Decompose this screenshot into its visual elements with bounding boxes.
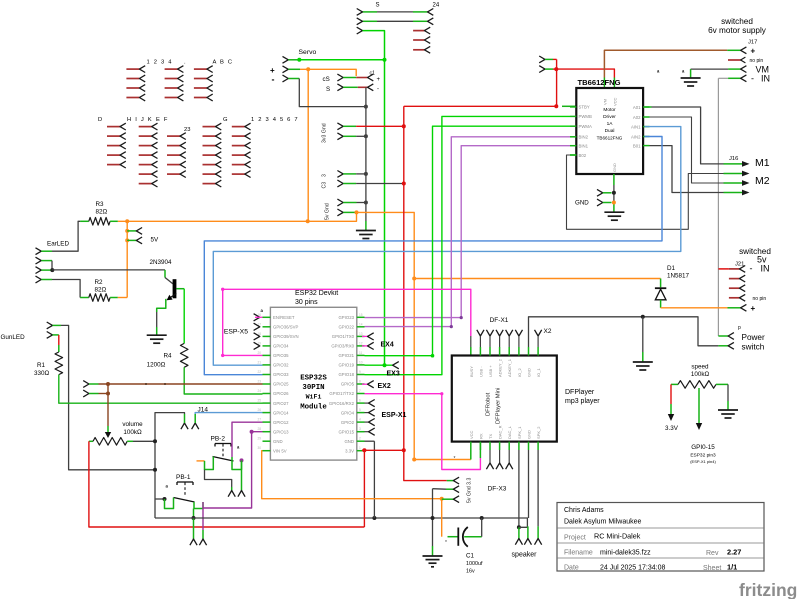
- node orange junction R3/servo branch: [306, 219, 310, 223]
- header pin Servo-2 (+): [283, 66, 289, 73]
- svg-text:GPI0-15: GPI0-15: [691, 444, 715, 451]
- wire A01 to J16-1: [645, 106, 652, 108]
- pushbutton PB-2 left contact: [205, 457, 214, 470]
- svg-text:GPIO13: GPIO13: [273, 429, 289, 434]
- svg-text:1A: 1A: [607, 121, 614, 127]
- svg-text:+: +: [377, 77, 381, 83]
- wire EarLED1 to R3 left: [52, 221, 80, 251]
- svg-text:5v Gnd: 5v Gnd: [325, 203, 331, 220]
- header pin 5vGnd33-2: [446, 488, 453, 490]
- header pin speaker: [537, 526, 539, 538]
- wire DFPlayer bottom stub: [470, 442, 472, 450]
- svg-text:24: 24: [257, 389, 261, 393]
- header pin EX2: [362, 383, 368, 385]
- wire PB-2 left to test pins: [205, 470, 232, 488]
- wire B02 to J16-2: [570, 154, 576, 156]
- svg-text:14: 14: [359, 322, 363, 326]
- svg-text:GPIO17/TX2: GPIO17/TX2: [329, 391, 354, 396]
- node green junction GPIO19/S: [383, 363, 387, 367]
- svg-text:GPIO26: GPIO26: [273, 391, 289, 396]
- svg-text:23: 23: [184, 127, 190, 133]
- svg-text:-: -: [750, 264, 753, 274]
- svg-text:3: 3: [359, 427, 361, 431]
- svg-text:DF-X1: DF-X1: [490, 317, 509, 324]
- wire base gray to 2N3904: [52, 269, 165, 271]
- header pin G-4: [203, 154, 216, 156]
- wire red volume-left to 3.3V bottom run: [89, 441, 365, 527]
- header pin A B C-4: [194, 97, 207, 99]
- wire PB-1 test pin left: [193, 518, 195, 539]
- potentiometer volume body: [89, 440, 93, 442]
- pushbutton PB-1 lever: [174, 498, 195, 503]
- wire ESP32 left stub GPIO35: [263, 354, 271, 356]
- wire ESP32 right stub GPIO1/TX0: [357, 335, 365, 337]
- potentiometer speed body: [671, 383, 678, 385]
- header pin G-2: [203, 135, 216, 137]
- header pin cluster-4: [107, 154, 120, 156]
- node junction pot right: [153, 439, 157, 443]
- wire ESP32 left stub EN/RESET: [263, 316, 271, 318]
- svg-text:IO_2: IO_2: [517, 368, 522, 377]
- svg-text:AIN1: AIN1: [631, 124, 641, 129]
- header pin J21-4: [729, 297, 740, 299]
- header pin cS: [337, 74, 343, 81]
- header pin H I J K-6: [139, 173, 152, 175]
- svg-text:volume: volume: [122, 421, 143, 428]
- wire ESP32 left stub GPIO25: [263, 383, 271, 385]
- header pin 1 2 3 4-4: [126, 97, 139, 99]
- wire ESP32 right stub GPIO3/RX0: [357, 345, 365, 347]
- header pin DF-X1: [506, 330, 513, 336]
- svg-text:82Ω: 82Ω: [95, 287, 107, 294]
- header pin 5vGnd33-3: [442, 498, 454, 500]
- header pin ESP-X5-4: [254, 342, 260, 349]
- wire pink GPIO35 to DFPlayer BUSY: [223, 289, 471, 355]
- header pin ESP-X1: [365, 431, 369, 433]
- svg-text:D: D: [98, 117, 102, 123]
- wire GunLED2 red to R1: [58, 335, 60, 345]
- svg-text:2: 2: [359, 437, 361, 441]
- svg-text:GPIO4: GPIO4: [341, 410, 355, 415]
- wire SPK_2 down: [537, 450, 539, 526]
- svg-text:S: S: [326, 86, 330, 93]
- svg-text:DFRobot: DFRobot: [486, 392, 492, 416]
- svg-text:B02: B02: [579, 153, 587, 158]
- svg-text:M2: M2: [755, 175, 770, 187]
- header pin J14-2: [192, 423, 199, 429]
- svg-text:DF-X3: DF-X3: [488, 486, 507, 493]
- svg-text:-: -: [272, 75, 275, 85]
- wire TB right pin stub: [643, 116, 649, 118]
- svg-text:2N3904: 2N3904: [150, 259, 173, 266]
- wire gnd vertical from c1- to ground: [365, 87, 367, 221]
- node red junction 3.3V b: [402, 448, 406, 452]
- wire ESP32 right stub GPIO22: [357, 326, 365, 328]
- wire green stub TB STBY: [562, 105, 576, 107]
- svg-text:ADKEY_2: ADKEY_2: [498, 358, 503, 377]
- svg-text:21: 21: [257, 360, 261, 364]
- header pin DF-X1: [496, 330, 503, 336]
- wire DFPlayer bottom stub: [537, 442, 539, 450]
- svg-text:GPIO19: GPIO19: [338, 363, 354, 368]
- wire TB left pin stub: [570, 154, 576, 156]
- header pin J21 +: [728, 307, 741, 309]
- wire DFPlayer bottom stub: [508, 442, 510, 450]
- op-amp U2 TB6612FNG body: [576, 88, 643, 174]
- svg-text:ESP32 pin3: ESP32 pin3: [690, 453, 716, 459]
- svg-text:R2: R2: [95, 279, 104, 286]
- pushbutton PB-1 cap: [177, 481, 193, 483]
- title block frame: [557, 503, 764, 572]
- svg-text:A02: A02: [633, 115, 641, 120]
- wire red 3.3V vertical main: [403, 106, 405, 450]
- header pin S-3: [357, 27, 363, 34]
- header pin DF-X1: [477, 330, 484, 336]
- node orange junction C1 branch: [440, 497, 444, 501]
- svg-text:EarLED: EarLED: [47, 241, 70, 248]
- node brown junction 2: [106, 392, 110, 396]
- wire gnd long horizontal run: [155, 517, 528, 519]
- svg-text:EX2: EX2: [378, 383, 391, 390]
- wire TB right pin stub: [643, 106, 649, 108]
- svg-text:Filename: Filename: [564, 550, 593, 557]
- wire DFPlayer GND-top to power switch: [528, 347, 530, 356]
- wire blue GPIO14 to J14-2: [195, 413, 262, 414]
- header pin 1 2 3 4-1: [126, 68, 139, 70]
- wire ESP32 left stub GPIO27: [263, 402, 271, 404]
- header pin S2: [337, 84, 343, 91]
- header pin DF-X1: [515, 330, 522, 336]
- node red junction VCC branch: [554, 67, 558, 71]
- svg-text:J17: J17: [748, 40, 757, 46]
- header pin 1 2 3 4 5 6 7-4: [232, 154, 245, 156]
- header pin .-2: [165, 78, 178, 80]
- svg-text:25: 25: [257, 399, 261, 403]
- header pin G-3: [203, 145, 216, 147]
- wire ESP32 right stub GPIO21: [357, 354, 365, 356]
- svg-text:6: 6: [359, 399, 361, 403]
- svg-text:ESP32 Devkit: ESP32 Devkit: [295, 290, 338, 297]
- wire R1 bottom to GPIO27: [59, 375, 263, 404]
- header pin VM-supply-1: [539, 56, 545, 63]
- node TB gnd junction 1: [612, 191, 616, 195]
- svg-text:R3: R3: [96, 201, 105, 208]
- wire gnd branch to ground: [642, 317, 644, 352]
- svg-text:GND: GND: [344, 439, 354, 444]
- header pin ESP-X1: [365, 402, 369, 404]
- wire ESP32 left stub VIN 5V: [263, 450, 271, 452]
- svg-text:GPIO21: GPIO21: [338, 353, 354, 358]
- svg-text:switched: switched: [721, 17, 753, 26]
- svg-text:100kΩ: 100kΩ: [123, 429, 142, 436]
- svg-text:USB -: USB -: [478, 366, 483, 377]
- svg-text:USB +: USB +: [488, 365, 493, 377]
- wire blue GPIO33 to AIN2: [204, 137, 662, 375]
- svg-text:VIN 5V: VIN 5V: [273, 448, 287, 453]
- svg-text:82Ω: 82Ω: [96, 209, 108, 216]
- header pin vol-2: [83, 390, 89, 397]
- header pin H I J K-5: [139, 164, 152, 166]
- svg-text:1000uf: 1000uf: [466, 561, 483, 567]
- wire speed wiper to GPIO-15 arrow: [698, 388, 700, 424]
- header pin cluster-4: [167, 164, 180, 166]
- wire ESP32 left stub GND: [263, 440, 271, 442]
- wire A02 to J16-3: [650, 117, 724, 183]
- header pin J17 no-pin: [728, 59, 741, 61]
- ground symbol C1: [423, 555, 443, 557]
- svg-text:6v motor supply: 6v motor supply: [708, 26, 767, 35]
- wire red STBY run: [404, 105, 557, 107]
- wire magenta stub EN/RESET: [255, 316, 263, 318]
- header pin A B C-1: [194, 68, 207, 70]
- header pin EarLED-3: [36, 267, 42, 274]
- wire Gnd1 to gnd vertical: [343, 135, 356, 137]
- header pin H I J K-7: [139, 183, 152, 185]
- wire orange ESP VIN to C1: [262, 451, 442, 499]
- wire pot right to J14 net: [133, 440, 155, 442]
- wire speed left to 3.3V arrow: [670, 384, 672, 404]
- svg-text:M1: M1: [755, 157, 770, 169]
- wire DFPlayer bottom stub: [518, 442, 520, 450]
- header pin H I J K-2: [139, 135, 152, 137]
- svg-text:GND: GND: [575, 200, 589, 207]
- svg-text:+: +: [751, 47, 756, 56]
- wire ESP32 right stub GPIO15: [357, 431, 365, 433]
- ground symbol power switch: [633, 361, 653, 363]
- svg-text:speaker: speaker: [512, 552, 538, 559]
- svg-text:D1: D1: [667, 265, 676, 272]
- svg-text:DAC_L: DAC_L: [507, 425, 512, 439]
- header pin A B C-3: [194, 87, 207, 89]
- wire EarLED4 to R2 left: [52, 280, 80, 298]
- header pin J16-2: [724, 173, 743, 175]
- svg-text:30PIN: 30PIN: [302, 384, 324, 392]
- header pin PB2-b: [238, 491, 245, 497]
- header pin 24-5: [413, 49, 424, 51]
- svg-text:TB6612FNG: TB6612FNG: [597, 136, 623, 141]
- node TB gnd junction 2 (orange): [612, 201, 616, 205]
- svg-text:WiFi: WiFi: [306, 394, 322, 401]
- wire ESP32 right stub GPIO2: [357, 421, 365, 423]
- svg-text:X2: X2: [544, 328, 552, 335]
- wire ESP32 left stub GPIO33: [263, 374, 271, 376]
- svg-text:PB-1: PB-1: [176, 474, 191, 481]
- header pin G-7: [203, 183, 216, 185]
- svg-text:GND: GND: [527, 430, 532, 439]
- node junction PB-1 gnd: [192, 516, 196, 520]
- wire magenta GPIO17/TX2 to DFPlayer RX: [365, 394, 481, 470]
- header pin 1 2 3 4-3: [126, 87, 139, 89]
- wire TB GND pin to ground: [613, 174, 615, 185]
- svg-text:GPIO16/RX2: GPIO16/RX2: [329, 401, 355, 406]
- svg-text:EX3: EX3: [387, 371, 400, 378]
- svg-text:7: 7: [359, 389, 361, 393]
- wire Gnd2 header to 5v orange net: [343, 211, 356, 213]
- header pin H I J K-4: [139, 154, 152, 156]
- header pin J14-1: [181, 423, 188, 429]
- wire ESP32 left stub GPIO26: [263, 393, 271, 395]
- svg-text:GPIO5: GPIO5: [341, 382, 355, 387]
- svg-text:GPIO18: GPIO18: [338, 372, 354, 377]
- svg-text:1 2 3 4 5 6 7: 1 2 3 4 5 6 7: [251, 117, 299, 123]
- wire ESP32 left stub GPIO12: [263, 421, 271, 423]
- diode D1: [660, 279, 662, 288]
- svg-text:2.27: 2.27: [727, 548, 741, 557]
- header pin EX3: [393, 362, 399, 369]
- node junction GunLED line: [153, 468, 157, 472]
- wire red bottom run up to 3.3V: [363, 450, 365, 527]
- node purple junction GPIO13: [250, 430, 254, 434]
- header pin speaker: [527, 526, 529, 538]
- svg-text:ESP-X5: ESP-X5: [224, 329, 248, 336]
- svg-text:GPIO14: GPIO14: [273, 410, 289, 415]
- node junction PB-1 left: [163, 497, 167, 501]
- node S3 junction at servo wire: [383, 58, 387, 62]
- svg-text:29: 29: [257, 437, 261, 441]
- header pin 3v3: [337, 123, 343, 130]
- wire ESP32 left stub GPIO34: [263, 345, 271, 347]
- wire purple PB-1 test pin: [202, 508, 204, 530]
- pushbutton PB-1 right contact: [194, 502, 203, 509]
- pushbutton PB-2 right contact: [232, 457, 242, 470]
- header pin GND-1: [597, 189, 603, 196]
- node purple junction PB-2: [240, 458, 244, 462]
- svg-text:GPIO22: GPIO22: [338, 325, 354, 330]
- node junction gnd run: [431, 516, 435, 520]
- svg-text:*: *: [454, 456, 456, 462]
- svg-text:5: 5: [359, 408, 361, 412]
- wire orange 5v vertical from servo+: [307, 69, 309, 221]
- svg-text:GPIO1/TX0: GPIO1/TX0: [332, 334, 355, 339]
- wire orange vertical R3-R2: [126, 221, 128, 297]
- node EarLED junction: [50, 268, 54, 272]
- svg-text:SPK_2: SPK_2: [536, 426, 541, 439]
- node orange corner at VCC run: [412, 458, 416, 462]
- wire orange main 5v run to DFPlayer VCC: [357, 212, 471, 459]
- pushbutton PB-2 cap: [215, 443, 231, 445]
- op-amp U1 ESP32 body: [270, 307, 356, 460]
- wire violet GPIO22 to BIN2: [365, 137, 571, 327]
- wire brown volume to GPIO25: [99, 383, 263, 385]
- wire GPIO19 green to EX3: [365, 364, 393, 366]
- svg-text:H I J K: H I J K: [127, 117, 153, 123]
- svg-text:GPIO32: GPIO32: [273, 363, 289, 368]
- header pin A B C-2: [194, 78, 207, 80]
- svg-text:DAC_R: DAC_R: [498, 425, 503, 439]
- svg-text:1200Ω: 1200Ω: [147, 362, 166, 369]
- svg-text:C3: C3: [322, 182, 328, 189]
- wire orange R3 to 5vGnd header run: [118, 212, 357, 221]
- wire S-24 row1: [363, 11, 378, 13]
- header pin cluster-2: [107, 135, 120, 137]
- wire speed right to ground: [727, 384, 729, 401]
- header pin EarLED-1: [36, 248, 42, 255]
- resistor R3: [80, 220, 89, 222]
- svg-text:15: 15: [359, 313, 363, 317]
- wire DFPlayer bottom stub: [479, 442, 481, 450]
- wire ESP32 right stub GPIO19: [357, 364, 365, 366]
- svg-text:mp3 player: mp3 player: [565, 398, 600, 405]
- svg-text:3.3V: 3.3V: [665, 425, 679, 432]
- header pin cluster-2: [167, 145, 180, 147]
- wire Servo1 to green net: [288, 59, 299, 61]
- svg-text:S: S: [376, 3, 380, 9]
- wire Servo+ orange to c1+ and 5v net: [288, 68, 300, 70]
- svg-text:VM: VM: [603, 99, 608, 105]
- svg-text:*: *: [445, 540, 447, 546]
- wire ESP32 right stub 3.3V: [357, 450, 365, 452]
- svg-text:EX4: EX4: [381, 342, 394, 349]
- wire PB-2 right to test pin: [241, 460, 243, 490]
- svg-text:3v3 Gnd: 3v3 Gnd: [322, 123, 328, 143]
- svg-text:330Ω: 330Ω: [34, 370, 50, 377]
- wire ESP32 right stub GPIO5: [357, 383, 365, 385]
- svg-text:ESP32S: ESP32S: [300, 375, 327, 383]
- header pin EX4: [362, 335, 368, 337]
- wire brown pin2 link: [99, 393, 109, 395]
- svg-text:24 Jul 2025 17:34:08: 24 Jul 2025 17:34:08: [600, 565, 665, 572]
- svg-text:GPIO15: GPIO15: [338, 429, 354, 434]
- header pin DF-X1: [486, 330, 493, 336]
- wire VM to ground: [691, 68, 729, 70]
- svg-text:Dalek Asylum Milwaukee: Dalek Asylum Milwaukee: [564, 519, 642, 526]
- header pin cluster-5: [107, 164, 120, 166]
- header pin H I J K-1: [139, 126, 152, 128]
- wire GunLED1 down to PB net: [61, 325, 155, 469]
- header pin .-3: [165, 87, 178, 89]
- wire ESP32 right stub GPIO23: [357, 316, 365, 318]
- wire SPK_1 down: [518, 450, 520, 527]
- header pin ESP-X1: [365, 421, 369, 423]
- header pin X2: [535, 330, 542, 336]
- wire TB right pin stub: [643, 145, 649, 147]
- svg-text:RX: RX: [478, 433, 483, 439]
- header pin 24-2: [428, 18, 434, 25]
- node junction speaker 1: [517, 525, 521, 529]
- resistor R2: [80, 297, 89, 299]
- svg-text:Motor: Motor: [603, 107, 616, 113]
- header pin 5vGnd33-1: [447, 480, 454, 482]
- wire green GPIO18 to PWMB: [365, 116, 571, 374]
- wire brown J17+ to TB VM pin: [604, 50, 727, 77]
- header pin c1-: [368, 84, 374, 91]
- header pin c1+: [368, 74, 374, 81]
- header pin Gnd1: [337, 133, 343, 140]
- header pin J21 -: [718, 268, 729, 270]
- svg-text:1 2 3 4: 1 2 3 4: [147, 60, 173, 66]
- svg-text:speed: speed: [691, 364, 709, 371]
- node 3.3V junction at 3v3 header: [402, 124, 406, 128]
- wire C1 to gnd run: [481, 518, 483, 537]
- header pin 5V-2: [127, 239, 136, 241]
- header pin C3: [337, 180, 343, 187]
- svg-text:TX: TX: [488, 434, 493, 439]
- wire ESP32 left stub GPIO13: [263, 431, 271, 433]
- header pin J17 +: [727, 49, 740, 51]
- wire DFPlayer bottom stub: [528, 442, 530, 450]
- svg-text:GPIO23: GPIO23: [338, 315, 354, 320]
- svg-text:30: 30: [257, 446, 261, 450]
- wire 5v header to gnd vertical: [343, 202, 356, 204]
- svg-text:cS: cS: [323, 76, 330, 83]
- svg-text:fritzing: fritzing: [739, 580, 797, 599]
- transistor Q1 2N3904: [164, 270, 166, 278]
- wire ESP32 left stub GPIO14: [263, 412, 271, 414]
- svg-text:A B C: A B C: [213, 60, 234, 66]
- header pin cluster-1: [167, 135, 180, 137]
- svg-text:IN: IN: [761, 264, 770, 274]
- header pin 1 2 3 4 5 6 7-3: [232, 145, 245, 147]
